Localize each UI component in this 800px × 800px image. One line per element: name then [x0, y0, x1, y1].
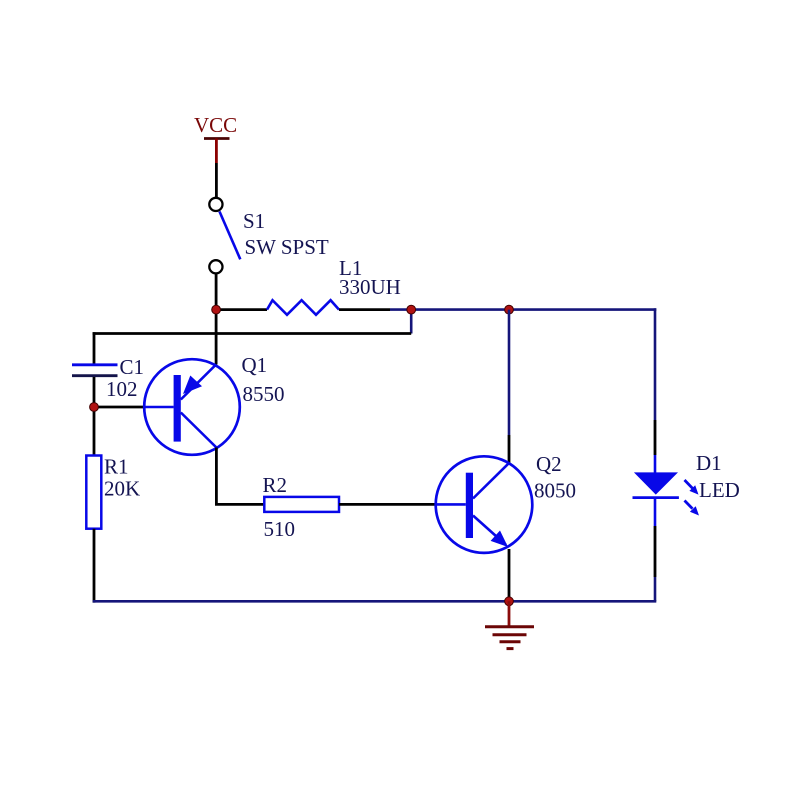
wire D1 cathode pin (black) [654, 526, 657, 577]
transistor Q1 base bar [174, 375, 181, 442]
node junction dot (509,601) [505, 597, 514, 606]
svg-text:R1: R1 [104, 455, 129, 479]
svg-text:8050: 8050 [534, 479, 576, 503]
node junction dot (411,310) [407, 305, 416, 314]
wire Q1 base (black) [94, 406, 144, 409]
LED D1 light arrow 1 head [689, 485, 698, 494]
wire Q1 collector to R2 [215, 503, 264, 506]
capacitor C1 top plate [72, 363, 118, 366]
transistor Q1 body circle [144, 359, 240, 455]
svg-text:VCC: VCC [194, 113, 237, 137]
svg-text:R2: R2 [263, 473, 288, 497]
ground bar 4 [507, 647, 514, 650]
switch S1 terminal 2 [209, 260, 222, 273]
wire D1 to bottom rail (blue) [654, 577, 657, 601]
wire bottom ground rail [93, 600, 657, 603]
wire R1 bottom to ground rail [93, 529, 96, 603]
svg-text:102: 102 [106, 377, 138, 401]
LED D1 light arrow 1 shaft [685, 480, 693, 488]
LED D1 cathode stub (blue) [654, 498, 657, 526]
svg-text:D1: D1 [696, 451, 722, 475]
LED D1 light arrow 2 shaft [685, 501, 693, 509]
transistor Q2 emitter line [473, 516, 506, 546]
transistor Q1 collector line [181, 413, 217, 448]
wire Q1 base pin (blue) [144, 406, 173, 409]
wire D1 anode pin (black) [654, 420, 657, 455]
svg-text:510: 510 [264, 517, 296, 541]
node junction dot (216,310) [212, 305, 221, 314]
ground stem [508, 601, 511, 627]
inductor L1 [267, 300, 339, 315]
VCC power bar [204, 137, 230, 140]
wire VCC to switch [215, 163, 218, 198]
ground bar 2 [493, 633, 527, 636]
svg-text:C1: C1 [120, 355, 145, 379]
wire D1 anode stub (blue) [654, 455, 657, 473]
transistor Q1 emitter line [181, 365, 216, 400]
transistor Q2 body circle [436, 456, 533, 553]
node junction dot (509,310) [505, 305, 514, 314]
wire switch to top rail junction [215, 274, 218, 365]
resistor R2 body [264, 497, 339, 512]
wire left rail top (to C1) [93, 332, 96, 364]
svg-text:20K: 20K [104, 477, 140, 501]
svg-text:S1: S1 [243, 209, 265, 233]
wire Q1 collector down [215, 448, 218, 505]
wire VCC stub (red part) [215, 139, 218, 164]
wire feedback drop at x=411 [410, 310, 413, 334]
wire C1 to base junction [93, 377, 96, 456]
svg-text:Q2: Q2 [536, 452, 562, 476]
switch S1 lever [220, 212, 241, 260]
wire top rail right segment (blue) [390, 308, 656, 311]
svg-text:Q1: Q1 [242, 353, 268, 377]
wire Q2 collector pin (black) [508, 435, 511, 464]
wire R2 to Q2 base (black) [339, 503, 436, 506]
wire Q2 collector drop (blue) [508, 310, 511, 435]
ground bar 1 [485, 625, 534, 628]
LED D1 triangle [634, 472, 678, 494]
svg-text:8550: 8550 [243, 382, 285, 406]
wire Q2 base pin (blue) [436, 503, 466, 506]
transistor Q2 emitter arrow [491, 531, 508, 548]
transistor Q2 base bar [466, 473, 473, 538]
resistor R1 body [86, 456, 101, 529]
wire Q2 emitter to ground rail [508, 549, 511, 601]
svg-text:330UH: 330UH [339, 275, 401, 299]
svg-text:SW SPST: SW SPST [245, 235, 329, 259]
wire top rail right of L1 (black part) [339, 308, 390, 311]
LED D1 cathode bar [633, 496, 679, 499]
svg-text:LED: LED [699, 478, 740, 502]
transistor Q2 collector line [473, 463, 509, 499]
switch S1 terminal 1 [209, 198, 222, 211]
capacitor C1 bottom plate [72, 374, 118, 377]
wire top rail left segment [216, 308, 267, 311]
node junction dot (94,407) [90, 403, 99, 412]
wire feedback rail y=333.5 [93, 332, 412, 335]
LED D1 light arrow 2 head [690, 506, 699, 515]
wire right rail drop (blue) [654, 308, 657, 420]
transistor Q1 emitter arrow [183, 376, 202, 395]
ground bar 3 [500, 640, 521, 643]
